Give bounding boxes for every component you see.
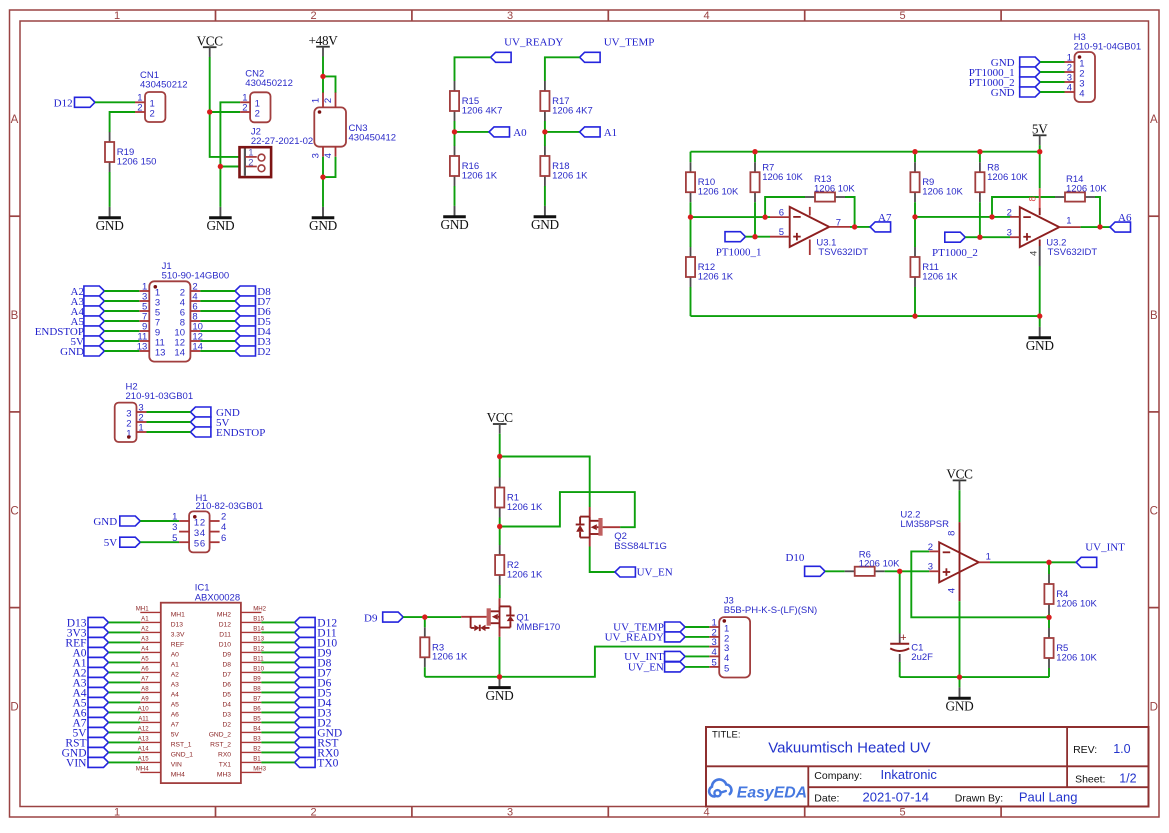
wire gate node to Q2 gate (over the top) [500, 492, 635, 527]
net flag D12 (IC1) [295, 617, 338, 629]
wire rail to R10 [690, 152, 692, 163]
svg-text:1.0: 1.0 [1113, 742, 1130, 756]
wire node to flag A0 [455, 131, 490, 133]
connector H2 210-91-03GB01 [115, 382, 193, 442]
svg-text:D6: D6 [222, 682, 231, 689]
svg-text:MH4: MH4 [136, 766, 149, 773]
wire [109, 711, 141, 713]
net flag RST (IC1) [65, 737, 108, 749]
wire +48V to CN3 pins 1,2 [322, 57, 324, 94]
connector CN1 430450212 [135, 70, 188, 122]
svg-text:Paul Lang: Paul Lang [1019, 789, 1078, 804]
svg-text:MH3: MH3 [217, 772, 231, 779]
svg-text:D2: D2 [222, 722, 231, 729]
net flag D4 (J1 pin 10) [235, 326, 271, 338]
IC1 pin B14 [219, 626, 264, 639]
svg-text:PT1000_2: PT1000_2 [932, 247, 978, 259]
svg-text:UV_EN: UV_EN [628, 662, 664, 674]
svg-text:C: C [1150, 506, 1158, 518]
wire [104, 320, 139, 322]
svg-text:2: 2 [310, 10, 316, 22]
IC1 pin A8 [140, 686, 179, 699]
resistor R5 [1044, 628, 1097, 668]
IC1 pin B8 [222, 686, 261, 699]
wire output [990, 561, 1076, 563]
svg-text:1206 1K: 1206 1K [922, 271, 958, 282]
IC1 pin A6 [140, 666, 179, 679]
svg-text:UV_EN: UV_EN [637, 567, 673, 579]
resistor R10 [686, 162, 739, 202]
svg-text:1206 10K: 1206 10K [698, 187, 739, 198]
svg-text:B1: B1 [253, 756, 261, 763]
svg-text:B2: B2 [253, 746, 261, 753]
wire bottom gnd rail [691, 315, 1040, 317]
net flag D11 (IC1) [295, 627, 337, 639]
svg-text:1: 1 [1066, 215, 1071, 226]
IC1 pin A14 [138, 746, 194, 759]
connector J3 B5B-PH-K-S-(LF)(SN) [709, 596, 817, 678]
svg-text:1206 1K: 1206 1K [698, 271, 734, 282]
svg-text:2: 2 [323, 98, 334, 103]
svg-text:2: 2 [248, 158, 253, 169]
svg-text:B9: B9 [253, 676, 261, 683]
svg-text:A5: A5 [141, 656, 149, 663]
wire [109, 631, 141, 633]
wire [109, 651, 141, 653]
svg-text:VCC: VCC [946, 467, 973, 482]
svg-text:BSS84LT1G: BSS84LT1G [614, 541, 667, 552]
svg-text:RST_2: RST_2 [210, 742, 231, 749]
IC1 pin A3 [140, 636, 184, 649]
svg-text:6: 6 [221, 533, 226, 544]
svg-text:D3: D3 [222, 712, 231, 719]
net flag A1 (IC1) [72, 657, 108, 669]
svg-text:1: 1 [311, 98, 322, 103]
power VCC [487, 410, 514, 434]
net flag A2 (J1 pin 1) [71, 286, 105, 298]
net flag A6 [1110, 212, 1132, 232]
resistor R14 [1055, 174, 1107, 202]
svg-text:Vakuumtisch Heated UV: Vakuumtisch Heated UV [768, 740, 930, 757]
svg-text:B5: B5 [253, 716, 261, 723]
wire [147, 421, 191, 423]
svg-text:D5: D5 [222, 692, 231, 699]
wire [261, 671, 294, 673]
wire [109, 731, 141, 733]
wire D9 to Q1 gate [403, 616, 461, 618]
ground GND (U2) [946, 687, 975, 713]
wire gnd rail U2 [900, 676, 1049, 678]
IC1 pin A7 [140, 676, 179, 689]
net flag 5V (J1 pin 11) [71, 336, 105, 348]
op-amp U3.1 TSV632IDT [790, 207, 830, 247]
body diode [580, 516, 590, 518]
net flag A4 (IC1) [72, 687, 108, 699]
wire top 5V rail [691, 151, 1040, 153]
IC1 pin B12 [222, 646, 264, 659]
wire [109, 661, 141, 663]
wire [109, 641, 141, 643]
net flag D8 (J1 pin 2) [235, 286, 271, 298]
svg-text:A1: A1 [171, 662, 179, 669]
svg-text:A4: A4 [171, 692, 179, 699]
svg-text:D12: D12 [219, 622, 232, 629]
net flag A6 (IC1) [72, 707, 108, 719]
wire [109, 671, 141, 673]
resistor R2 [495, 545, 543, 585]
wire feedback loop U3.2 [992, 197, 1055, 217]
wire [685, 636, 709, 638]
svg-text:D2: D2 [257, 346, 270, 358]
svg-text:5: 5 [779, 227, 784, 238]
svg-text:1: 1 [194, 517, 199, 528]
svg-text:1: 1 [138, 423, 143, 434]
IC1 pin MH4 [136, 766, 185, 779]
IC1 pin B3 [210, 736, 261, 749]
svg-text:2: 2 [242, 102, 247, 113]
svg-text:1206 10K: 1206 10K [859, 559, 900, 570]
svg-text:VIN: VIN [171, 762, 182, 769]
wire [140, 541, 179, 543]
IC1 pin A12 [138, 726, 180, 739]
svg-text:4: 4 [703, 10, 709, 22]
ground GND (R19) [96, 207, 125, 233]
wire R11 to bottom rail [914, 287, 916, 316]
resistor R9 [910, 162, 963, 202]
svg-text:GND: GND [991, 87, 1015, 99]
wire [200, 350, 235, 352]
wire [261, 691, 294, 693]
wire [109, 701, 141, 703]
svg-text:GND: GND [206, 218, 235, 233]
wire output to R4 [1048, 562, 1050, 574]
svg-text:14: 14 [174, 347, 185, 358]
wire [200, 290, 235, 292]
wire R15 to R16 node A0 [454, 121, 456, 146]
svg-text:6: 6 [779, 207, 784, 218]
svg-text:B5B-PH-K-S-(LF)(SN): B5B-PH-K-S-(LF)(SN) [724, 605, 817, 616]
svg-text:A2: A2 [141, 626, 149, 633]
U2.2 pins [900, 510, 990, 602]
svg-text:D9: D9 [222, 652, 231, 659]
IC1 pin A15 [138, 756, 182, 769]
svg-text:GND: GND [441, 217, 470, 232]
svg-text:5: 5 [194, 539, 199, 550]
connector CN3 430450412 [311, 93, 396, 159]
capacitor C1 2u2F [890, 632, 933, 663]
svg-text:2u2F: 2u2F [911, 652, 933, 663]
svg-text:4: 4 [1028, 251, 1039, 256]
wire output to flag A6 [1081, 226, 1110, 228]
svg-text:LM358PSR: LM358PSR [900, 519, 949, 530]
wire CN3 pins 3,4 to ground [322, 157, 324, 207]
net flag RX0 (IC1) [295, 747, 340, 759]
net flag GND (H3 pin 4) [991, 87, 1040, 99]
IC1 pin MH3 [217, 766, 267, 779]
wire R5 to gnd rail [1048, 668, 1050, 677]
net flag GND (H1 pin1) [93, 516, 140, 528]
net flag A0 (IC1) [72, 647, 108, 659]
svg-text:VCC: VCC [487, 410, 514, 425]
svg-text:4: 4 [724, 653, 729, 664]
svg-text:A3: A3 [171, 682, 179, 689]
svg-text:2021-07-14: 2021-07-14 [863, 789, 930, 804]
power 5V [1032, 122, 1048, 146]
svg-text:B: B [1150, 310, 1158, 322]
IC1 pin A4 [140, 646, 179, 659]
net flag D2 (J1 pin 14) [235, 346, 271, 358]
body diode [500, 605, 511, 607]
IC1 pin MH2 [217, 606, 267, 619]
net flag ENDSTOP (J1 pin 9) [35, 326, 105, 338]
net flag GND (H3 pin 1) [991, 57, 1040, 69]
svg-text:D7: D7 [222, 672, 231, 679]
junction dots [207, 109, 212, 114]
svg-text:Drawn By:: Drawn By: [955, 792, 1003, 804]
svg-text:1206 10K: 1206 10K [1066, 183, 1107, 194]
svg-text:UV_INT: UV_INT [1085, 541, 1125, 553]
wire [109, 721, 141, 723]
wire D12 to CN1 pin1 [95, 101, 135, 103]
wire R17 to R18 node A1 [544, 121, 546, 146]
svg-text:D13: D13 [171, 622, 184, 629]
resistor R4 [1044, 574, 1097, 614]
wire pin4 to gnd rail [959, 601, 961, 677]
svg-text:A6: A6 [1118, 212, 1132, 224]
svg-text:GND: GND [531, 217, 560, 232]
svg-text:TX0: TX0 [317, 758, 338, 770]
wire node to flag A1 [545, 131, 580, 133]
svg-text:4: 4 [221, 522, 226, 533]
svg-text:8: 8 [1027, 196, 1038, 201]
svg-text:A5: A5 [171, 702, 179, 709]
svg-text:GND_2: GND_2 [209, 732, 232, 739]
ground GND (Q1) [486, 677, 515, 703]
net flag UV_TEMP [580, 37, 655, 63]
net flag A3 (IC1) [72, 677, 108, 689]
wire R8 to pin3 node [979, 202, 981, 237]
svg-text:A8: A8 [141, 686, 149, 693]
svg-text:1206 10K: 1206 10K [814, 183, 855, 194]
wire Q1 source to gnd rail [499, 637, 501, 677]
svg-text:B: B [11, 310, 19, 322]
transistor Q1 MMBF170 [461, 598, 560, 637]
wire [104, 340, 139, 342]
svg-text:510-90-14GB00: 510-90-14GB00 [162, 271, 230, 282]
svg-text:A1: A1 [141, 616, 149, 623]
svg-text:A7: A7 [141, 676, 149, 683]
svg-text:D10: D10 [785, 552, 804, 564]
svg-text:1206 10K: 1206 10K [1056, 598, 1097, 609]
wire VCC to R1 and Q2 [499, 434, 501, 478]
svg-text:VIN: VIN [66, 758, 87, 770]
svg-text:1/2: 1/2 [1119, 771, 1136, 785]
wire UV_TEMP to R17 [545, 57, 580, 81]
svg-text:4: 4 [703, 807, 709, 819]
wire [261, 651, 294, 653]
wire R2 to Q1 drain [499, 585, 501, 598]
net flag A2 (IC1) [72, 667, 108, 679]
svg-text:B6: B6 [253, 706, 261, 713]
IC1 pin B11 [222, 656, 264, 669]
svg-text:8: 8 [946, 531, 957, 536]
IC1 pin A11 [138, 716, 179, 729]
op-amp U3.2 TSV632IDT [1020, 207, 1060, 247]
net flag D2 (IC1) [295, 717, 332, 729]
IC1 pin A9 [140, 696, 179, 709]
wire [104, 350, 139, 352]
svg-text:3: 3 [172, 522, 177, 533]
wire [140, 520, 179, 522]
resistor R6 [845, 549, 900, 576]
svg-text:3.3V: 3.3V [171, 632, 185, 639]
wire [261, 621, 294, 623]
net flag D4 (IC1) [295, 697, 332, 709]
svg-text:Inkatronic: Inkatronic [881, 767, 938, 782]
svg-text:TX1: TX1 [219, 762, 232, 769]
svg-text:B3: B3 [253, 736, 261, 743]
IC1 pin B2 [218, 746, 261, 759]
ground GND (CN2/J2) [206, 207, 235, 233]
wire [109, 741, 141, 743]
svg-text:MH1: MH1 [171, 612, 185, 619]
svg-text:A: A [11, 114, 19, 126]
svg-text:210-91-04GB01: 210-91-04GB01 [1074, 42, 1142, 53]
IC1 pin B7 [222, 696, 261, 709]
wire Q2 drain to UV_EN [590, 547, 615, 573]
resistor R15 [450, 81, 502, 121]
svg-text:2: 2 [200, 517, 205, 528]
wire [261, 741, 294, 743]
net flag D8 (IC1) [295, 657, 332, 669]
svg-text:ENDSTOP: ENDSTOP [216, 427, 265, 439]
wire rail to R7 [754, 152, 756, 163]
svg-text:1206 10K: 1206 10K [1056, 652, 1097, 663]
ground GND (R18) [531, 206, 560, 232]
svg-text:C: C [10, 506, 18, 518]
resistor R16 [450, 146, 498, 186]
IC1 pin B15 [219, 616, 265, 629]
svg-text:1206 1K: 1206 1K [462, 170, 498, 181]
net flag RST (IC1) [295, 737, 339, 749]
svg-text:3: 3 [1007, 228, 1012, 239]
ground GND (CN3) [309, 207, 338, 233]
svg-text:D10: D10 [219, 642, 232, 649]
wire [261, 681, 294, 683]
svg-text:MH2: MH2 [253, 606, 266, 613]
net flag D12 [54, 97, 95, 109]
ground GND (R16) [441, 206, 470, 232]
svg-text:TSV632IDT: TSV632IDT [1048, 247, 1098, 258]
svg-text:6: 6 [200, 539, 205, 550]
wire [147, 431, 191, 433]
wire rail to R8 [979, 152, 981, 163]
net flag UV_READY [491, 37, 564, 63]
net flag PT1000_2 [932, 232, 978, 259]
svg-text:1206 1K: 1206 1K [432, 652, 468, 663]
net flag A7 (IC1) [72, 717, 108, 729]
wire R14 to output [1095, 197, 1100, 227]
IC1 pin B5 [222, 716, 261, 729]
wire R9 to R11 / pin2 node [914, 202, 916, 247]
wire [1040, 71, 1064, 73]
power +48V [309, 33, 339, 57]
svg-text:GND: GND [309, 218, 338, 233]
wire R19 to ground [109, 172, 111, 207]
IC1 pin B13 [219, 636, 265, 649]
wire [200, 310, 235, 312]
svg-text:210-82-03GB01: 210-82-03GB01 [196, 501, 264, 512]
svg-text:UV_READY: UV_READY [504, 37, 563, 49]
wire R10 to R12 / pin6 node [690, 202, 692, 247]
wire R7 to pin5 node [754, 202, 756, 237]
wire [261, 631, 294, 633]
net flag D6 (IC1) [295, 677, 332, 689]
net flag D9 [364, 612, 403, 624]
svg-text:5V: 5V [104, 537, 118, 549]
resistor R12 [686, 247, 734, 287]
svg-text:UV_READY: UV_READY [605, 632, 664, 644]
wire R1 to R2 / gate node [499, 518, 501, 546]
svg-text:1206 1K: 1206 1K [507, 569, 543, 580]
svg-text:1: 1 [986, 552, 991, 563]
svg-text:PT1000_1: PT1000_1 [716, 246, 762, 258]
wire rail to R9 [914, 152, 916, 163]
resistor R7 [750, 162, 803, 202]
wire [109, 761, 141, 763]
svg-text:4: 4 [200, 528, 205, 539]
wire [104, 330, 139, 332]
svg-text:Date:: Date: [814, 792, 839, 804]
svg-text:5: 5 [724, 663, 729, 674]
wire pin2 feedback [911, 551, 1049, 617]
wire [109, 681, 141, 683]
net flag D5 (J1 pin 8) [235, 316, 271, 328]
net flag A0 [489, 127, 527, 139]
svg-text:A4: A4 [141, 646, 149, 653]
svg-text:3: 3 [194, 528, 199, 539]
svg-text:5: 5 [899, 10, 905, 22]
net flag PT1000_1 (H3 pin 2) [969, 67, 1040, 79]
net flag 5V (H2 pin 2) [190, 417, 229, 429]
svg-text:A0: A0 [513, 127, 527, 139]
wire [261, 731, 294, 733]
svg-text:1206 10K: 1206 10K [987, 172, 1028, 183]
svg-text:+48V: +48V [309, 33, 339, 48]
svg-text:4: 4 [1067, 83, 1072, 94]
EasyEDA logo [709, 779, 807, 801]
svg-text:D8: D8 [222, 662, 231, 669]
wire R6 to pin3 [885, 570, 930, 572]
net flag D7 (IC1) [295, 667, 332, 679]
wire [200, 330, 235, 332]
net flag TX0 (IC1) [295, 757, 339, 769]
svg-text:VCC: VCC [197, 33, 224, 48]
svg-text:2: 2 [255, 108, 260, 119]
wire gnd rail to J3 pin3 [425, 647, 710, 677]
net flag PT1000_2 (H3 pin 3) [969, 77, 1040, 89]
title block [706, 727, 1149, 807]
svg-text:3: 3 [507, 807, 513, 819]
svg-text:ABX00028: ABX00028 [195, 592, 240, 603]
wire [1040, 81, 1064, 83]
svg-text:TSV632IDT: TSV632IDT [818, 247, 868, 258]
wire [104, 300, 139, 302]
svg-text:1: 1 [114, 10, 120, 22]
net flag GND (IC1) [62, 747, 109, 759]
wire pin2 net [915, 216, 1010, 218]
wire VCC branch to CN2 pin2 [210, 111, 240, 113]
